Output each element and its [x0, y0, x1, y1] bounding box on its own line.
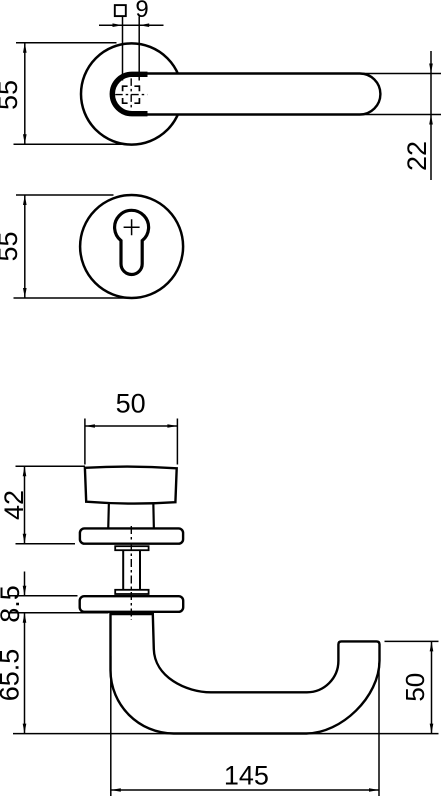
extension line 55 top — [16, 42, 117, 44]
extension line grip top — [16, 465, 86, 467]
svg-text:42: 42 — [0, 490, 29, 520]
centerline vertical — [130, 78, 132, 110]
spindle flange upper — [115, 546, 148, 550]
extension line 55 mid top — [16, 194, 114, 196]
arrow 55 down — [23, 134, 27, 144]
extension line 50 top right — [176, 419, 178, 465]
arrow 9 right — [139, 23, 149, 27]
extension line rose1 bottom — [16, 543, 76, 545]
arrow 55 up — [23, 43, 27, 53]
arrow 145 left — [111, 788, 121, 792]
centerline spindle — [130, 526, 132, 620]
arrow 42 up — [23, 466, 27, 476]
keyhole center cross — [124, 219, 140, 235]
extension line 145 right — [378, 663, 380, 796]
arrow 145 right — [369, 788, 379, 792]
extension line 9 left — [122, 17, 124, 81]
lever bar (stadium shape) — [111, 74, 380, 115]
arrow 42 down — [23, 534, 27, 544]
dimension line 50 right — [431, 641, 433, 733]
arrow 65.5 down — [23, 724, 27, 734]
arrow 55 mid down — [23, 288, 27, 298]
dimension line 145 — [111, 789, 379, 791]
arrow 65.5 up — [23, 613, 27, 623]
extension line 22 bottom — [362, 114, 441, 116]
svg-text:9: 9 — [135, 0, 148, 23]
extension line 55 bottom — [14, 143, 137, 145]
dimension line 50 top — [85, 425, 177, 427]
arrow 22 down — [429, 64, 433, 74]
spindle square hole (dashed) — [122, 85, 139, 104]
dimension line 65.5 — [24, 613, 26, 734]
svg-text:50: 50 — [400, 673, 430, 702]
dimension line 9 — [99, 24, 164, 26]
dimension line 8.5 upper segment — [24, 572, 26, 596]
svg-text:65.5: 65.5 — [0, 649, 25, 702]
grip block — [85, 467, 177, 504]
dimension line 55 — [24, 43, 26, 144]
arrow 50 right down — [430, 724, 434, 734]
svg-text:55: 55 — [0, 231, 23, 261]
extension line 50 right top — [385, 640, 439, 642]
upper rose (edge view) — [80, 528, 183, 543]
extension line 145 left — [110, 656, 112, 796]
arrow 50 right up — [430, 641, 434, 651]
rose circle (55mm) — [81, 43, 182, 144]
arrow 9 left — [113, 23, 123, 27]
escutcheon circle (55mm) — [80, 195, 183, 298]
lever neck thick arc — [112, 74, 147, 113]
svg-text:50: 50 — [116, 388, 146, 418]
spindle flange lower — [115, 590, 148, 594]
extension line rose2 bottom — [8, 612, 108, 614]
centerline horizontal — [115, 94, 147, 96]
lower rose (edge view) — [80, 596, 184, 612]
svg-text:22: 22 — [402, 141, 432, 171]
dimension line 55 mid — [24, 195, 26, 298]
square symbol — [115, 5, 126, 16]
extension line 50 right bottom — [306, 733, 439, 735]
extension line 22 top — [362, 73, 441, 75]
arrow 50 top left — [85, 424, 95, 428]
extension line handle bottom left — [13, 733, 180, 735]
extension line 55 mid bottom — [14, 297, 133, 299]
dimension line 42 — [24, 466, 26, 544]
svg-text:145: 145 — [224, 760, 269, 790]
handle J-curve (side view) — [111, 614, 380, 734]
arrow 50 top right — [167, 424, 177, 428]
neck between grip and rose — [108, 502, 154, 530]
svg-text:55: 55 — [0, 80, 23, 110]
svg-text:8.5: 8.5 — [0, 585, 25, 623]
arrow 22 up — [429, 115, 433, 125]
arrow 55 mid up — [23, 195, 27, 205]
spindle shaft — [123, 549, 140, 591]
extension line 9 right — [138, 17, 140, 81]
dimension line 22 — [430, 51, 432, 180]
extension line 50 top left — [84, 419, 86, 465]
euro profile keyhole — [115, 210, 149, 274]
arrow 8.5 down — [23, 586, 27, 596]
extension line rose2 top — [8, 595, 77, 597]
